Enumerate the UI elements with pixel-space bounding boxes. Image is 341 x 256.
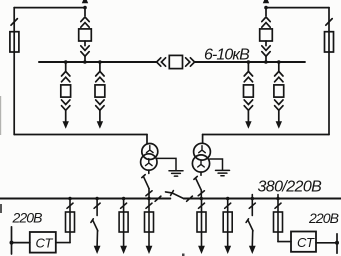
svg-text:6-10кВ: 6-10кВ [204,47,250,64]
svg-text:220В: 220В [308,210,339,226]
svg-text:СТ: СТ [297,235,315,250]
svg-text:380/220В: 380/220В [258,178,323,195]
svg-text:220В: 220В [12,209,43,225]
svg-text:СТ: СТ [36,235,54,250]
